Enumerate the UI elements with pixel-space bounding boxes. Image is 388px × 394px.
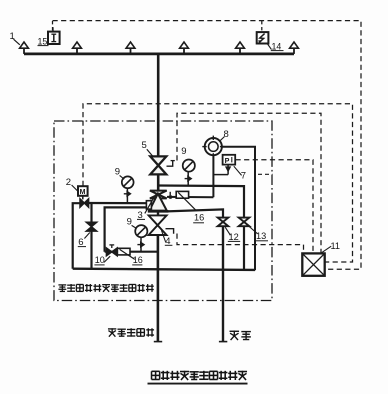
pipe: main riser from branch down to valve 5	[157, 53, 160, 156]
gauge cock (upper left)	[124, 191, 131, 196]
pipe: drain drop to outlet	[222, 226, 224, 341]
pipe: gauge stem to alarm test line	[187, 172, 189, 186]
deluge alarm valve 3: main cone body	[149, 194, 166, 211]
svg-text:16: 16	[194, 213, 204, 223]
pipe: bypass branch down through valve 6	[90, 203, 92, 222]
label 6 with underline and leader	[78, 233, 90, 249]
label 9 (lower) with leader	[127, 217, 137, 229]
sprinkler head 2 (open deluge nozzle)	[73, 42, 82, 54]
pipe: from valve 13 down to drain header	[243, 226, 245, 270]
bracket: supervisory tap at right of valve 5	[167, 161, 173, 167]
svg-text:14: 14	[272, 41, 282, 51]
pipe: deluge valve drain line to drain valve 12	[167, 209, 223, 217]
title: 电动启动雨淋系统示意图 with underline	[152, 371, 248, 380]
valve 6 (bypass valve)	[86, 222, 96, 231]
svg-text:7: 7	[241, 171, 246, 182]
valve 13 (alarm test valve)	[239, 218, 250, 227]
pipe: pressure switch connection with arrow to alarm line	[213, 165, 230, 175]
svg-text:12: 12	[229, 232, 239, 242]
boundary: dash-dot protected zone box	[54, 121, 272, 301]
sprinkler head 3 (open deluge nozzle)	[126, 42, 135, 54]
pipe: bottom drain header	[73, 269, 255, 270]
label 4 with underline and leader	[162, 231, 173, 248]
gauge cock (lower)	[137, 242, 144, 247]
pipe: upper-left gauge stem	[126, 188, 128, 203]
pipe: drain end tick	[219, 341, 227, 343]
pipe: supply end tick	[154, 341, 162, 343]
label 13 with underline and leader	[246, 224, 268, 241]
pipe: gong overflow to drain drop	[222, 147, 255, 271]
strainer 16 (left, on test loop)	[117, 248, 134, 259]
svg-text:15: 15	[38, 36, 48, 46]
motorized valve 2: motor box M	[78, 186, 88, 199]
wire: dashed stub above detector box 14	[261, 21, 263, 32]
pipe: priming line valve2 to deluge valve top tab	[89, 202, 147, 204]
wire: stray dash fragment right of label 7	[258, 173, 273, 175]
pipe: riser segment between valve 5 and deluge valve 3	[157, 174, 160, 191]
gauge 9 (upper middle, above alarm line)	[183, 160, 195, 172]
label 15 with underline	[38, 36, 49, 46]
label 16 (left strainer) with underline	[132, 255, 143, 265]
svg-text:9: 9	[127, 217, 132, 228]
note text: 注：框内为雨淋报警阀组	[58, 284, 153, 292]
svg-text:11: 11	[331, 241, 341, 251]
pressure switch 7 box	[223, 155, 236, 165]
wire: detector loop top dashed line with right drop to control panel 11	[53, 21, 362, 270]
label 12 with underline and leader	[225, 227, 240, 242]
wire: control line from panel 11 to motorized valve 2 (dashed)	[83, 104, 353, 262]
fire alarm control panel 11 (box with X)	[302, 253, 324, 275]
label 1 with leader	[10, 31, 20, 45]
bracket: supervisory tap at right of valve 4	[166, 229, 174, 234]
water motor alarm gong 8	[202, 136, 224, 158]
svg-text:13: 13	[256, 231, 266, 241]
svg-text:16: 16	[133, 255, 143, 265]
svg-text:8: 8	[224, 129, 229, 140]
junction node on alarm outlet	[169, 195, 173, 199]
pipe: stub from valve 3 base to valve 4	[157, 211, 159, 215]
svg-text:9: 9	[181, 146, 186, 157]
gauge cock on stem	[185, 176, 192, 181]
pipe: riser to water motor gong	[212, 155, 214, 197]
valve 5 (butterfly isolating valve on riser)	[150, 156, 166, 174]
sprinkler head 1 (open deluge nozzle)	[20, 42, 29, 54]
sprinkler head 4 (open deluge nozzle)	[180, 42, 189, 54]
sprinkler head 5 (open deluge nozzle)	[236, 42, 245, 54]
pipe: alarm outlet line from deluge valve to gong riser	[167, 196, 213, 198]
label 5 with leader	[142, 140, 154, 157]
label 10 with underline and leader	[94, 255, 110, 265]
deluge alarm valve 3: left priming tab	[146, 201, 151, 209]
detector box 14 (heat detector, lightning symbol)	[257, 32, 269, 43]
label 14 with underline and leader	[267, 41, 283, 51]
gauge 9 (lower)	[135, 225, 147, 237]
svg-text:M: M	[80, 189, 86, 196]
pipe: lower gauge stem	[140, 237, 142, 251]
valve 12 (main drain valve)	[218, 218, 229, 227]
svg-text:5: 5	[142, 140, 147, 151]
svg-text:10: 10	[95, 255, 105, 265]
label 3 with underline and leader	[137, 195, 156, 221]
svg-text:P: P	[225, 156, 230, 165]
text: 接消防供水 (fire water supply)	[108, 328, 154, 336]
label 11 with leader	[322, 241, 340, 253]
wire: supervisory line from valve 5 to panel 11 (dashed)	[177, 113, 321, 253]
wire: signal line from pressure switch 7 to panel 11 (dashed)	[236, 160, 314, 253]
sprinkler head 6 (open deluge nozzle)	[290, 42, 299, 54]
label 16 (right strainer) with underline	[193, 213, 204, 223]
svg-text:2: 2	[66, 177, 71, 188]
deluge alarm valve 3: top bowtie	[150, 191, 167, 199]
pipe: inner loop top from deluge tab	[105, 207, 147, 251]
pipe: alarm test line from riser to test valve 13	[158, 186, 244, 218]
pipe: inner loop bottom to riser	[105, 251, 158, 253]
pipe: below valve 6 to bottom header	[90, 231, 92, 269]
label 9 (upper left) with leader	[115, 167, 124, 180]
strainer 16 (on alarm line)	[176, 191, 196, 210]
valve 10 (test valve) with stem	[106, 245, 117, 256]
detector box 15	[48, 27, 60, 44]
pipe: top sprinkler branch line	[24, 53, 294, 56]
text: 排水 (drain)	[230, 331, 251, 341]
label 7 with leader	[234, 166, 246, 181]
gauge 9 (upper left)	[122, 176, 134, 188]
valve 4 (isolating valve below deluge valve)	[149, 215, 167, 235]
wire: dashed stub above detector box 15	[52, 21, 54, 31]
deluge alarm valve 3: base bar	[148, 210, 169, 213]
pipe: riser from valve 4 down to fire-water supply	[157, 235, 160, 342]
label 2 with leader	[66, 177, 78, 191]
motorized valve 2: valve body	[80, 199, 89, 207]
pipe: valve 2 left elbow down to bottom header	[73, 203, 80, 269]
wire: signal line from valve 4 area to panel 11 (dashed)	[177, 234, 304, 254]
label 8 with leader	[220, 129, 229, 141]
